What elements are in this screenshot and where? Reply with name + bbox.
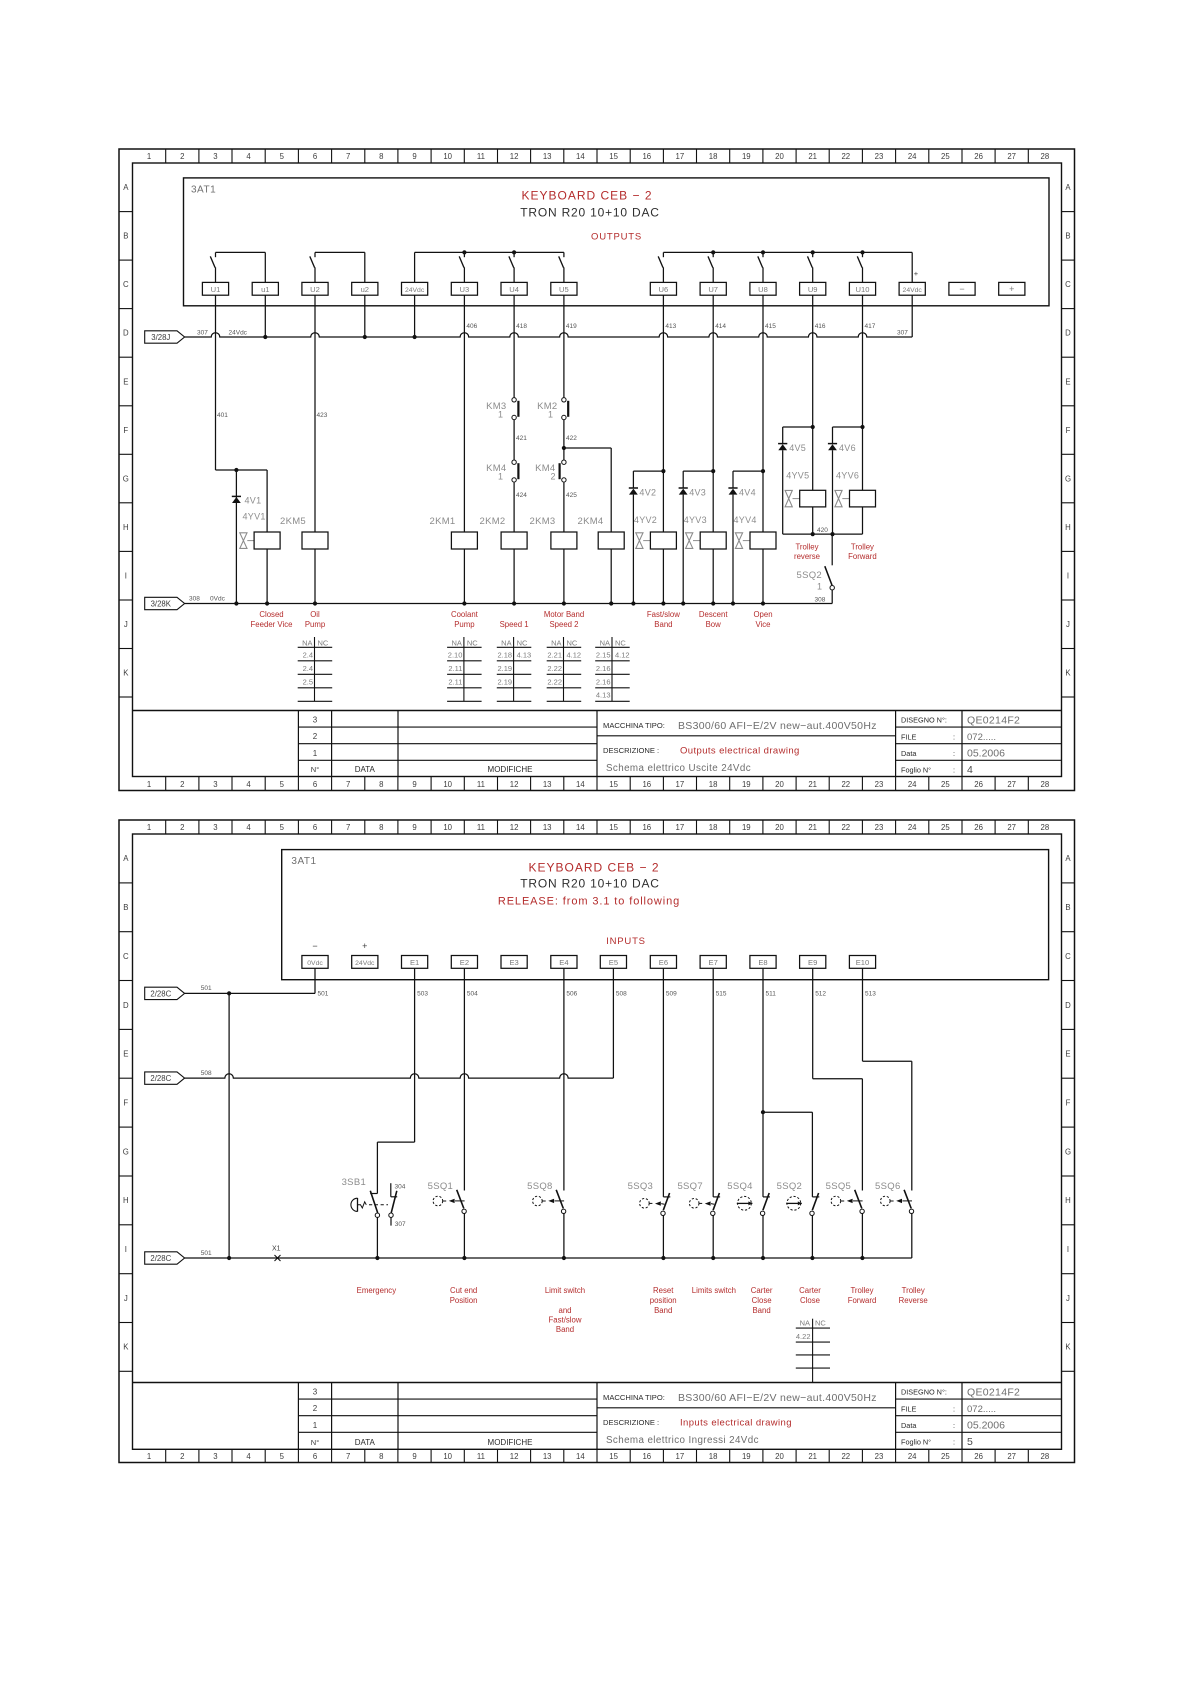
svg-text:H: H bbox=[123, 1196, 129, 1205]
svg-text:2: 2 bbox=[180, 823, 184, 832]
svg-text:4V3: 4V3 bbox=[689, 488, 706, 498]
svg-text:U4: U4 bbox=[509, 285, 519, 294]
svg-text:11: 11 bbox=[477, 823, 485, 832]
svg-text:4: 4 bbox=[967, 764, 973, 776]
svg-text:19: 19 bbox=[742, 823, 751, 832]
svg-text:4V6: 4V6 bbox=[839, 443, 856, 453]
svg-text:2.11: 2.11 bbox=[448, 664, 462, 673]
svg-text:24: 24 bbox=[908, 780, 917, 789]
svg-text:16: 16 bbox=[642, 152, 651, 161]
svg-text:K: K bbox=[1065, 669, 1071, 678]
svg-text:4V1: 4V1 bbox=[245, 496, 262, 506]
svg-text::: : bbox=[953, 1438, 955, 1447]
svg-text:DATA: DATA bbox=[355, 765, 376, 774]
svg-text:J: J bbox=[124, 620, 128, 629]
svg-text:NA: NA bbox=[451, 638, 461, 647]
svg-text:18: 18 bbox=[709, 152, 718, 161]
svg-text:2.4: 2.4 bbox=[303, 651, 313, 660]
svg-text:Outputs electrical drawing: Outputs electrical drawing bbox=[680, 746, 800, 757]
svg-text:4YV5: 4YV5 bbox=[786, 471, 809, 481]
svg-text:E5: E5 bbox=[609, 958, 618, 967]
svg-text:28: 28 bbox=[1041, 780, 1050, 789]
svg-text:Carter: Carter bbox=[799, 1286, 821, 1295]
svg-text:308: 308 bbox=[189, 596, 200, 603]
svg-text:Carter: Carter bbox=[751, 1286, 773, 1295]
svg-text:KEYBOARD CEB − 2: KEYBOARD CEB − 2 bbox=[521, 189, 652, 203]
solenoid coil 4YV3 bbox=[684, 515, 727, 549]
svg-text:501: 501 bbox=[318, 991, 329, 998]
source flag 2/28C bottom wire 501 bbox=[145, 1252, 185, 1264]
svg-text:Emergency: Emergency bbox=[357, 1286, 397, 1295]
svg-text:2KM5: 2KM5 bbox=[280, 516, 306, 527]
terminal U2 bbox=[302, 282, 328, 295]
svg-text:3: 3 bbox=[313, 716, 318, 725]
svg-text:2/28C: 2/28C bbox=[150, 1254, 171, 1263]
bus 501 top bbox=[185, 968, 315, 995]
internal contact and wire for output U2 bbox=[310, 252, 365, 282]
svg-text:2: 2 bbox=[180, 1452, 184, 1461]
svg-text:K: K bbox=[123, 1343, 129, 1352]
terminal marker X1 bbox=[272, 1246, 281, 1262]
svg-text:E10: E10 bbox=[856, 958, 870, 967]
svg-text:U9: U9 bbox=[808, 285, 818, 294]
source flag 3/28K bbox=[145, 597, 185, 609]
svg-text:13: 13 bbox=[543, 1452, 552, 1461]
svg-text:Band: Band bbox=[556, 1325, 574, 1334]
svg-text:9: 9 bbox=[412, 152, 416, 161]
svg-text:NC: NC bbox=[615, 638, 626, 647]
svg-text:FILE: FILE bbox=[901, 1404, 917, 1413]
svg-text:423: 423 bbox=[317, 412, 328, 419]
svg-text:2.18: 2.18 bbox=[497, 651, 512, 660]
terminal U5 bbox=[551, 282, 577, 295]
diode 4V2 bbox=[629, 488, 657, 498]
wire E5 to bus 508 bbox=[612, 968, 614, 1078]
svg-text:2.19: 2.19 bbox=[497, 664, 512, 673]
svg-text:Data: Data bbox=[901, 749, 917, 758]
svg-text:15: 15 bbox=[609, 152, 618, 161]
svg-text:5: 5 bbox=[280, 780, 285, 789]
diode 4V4 bbox=[728, 488, 756, 498]
svg-text:+: + bbox=[362, 941, 367, 951]
svg-text:27: 27 bbox=[1007, 780, 1016, 789]
svg-text:19: 19 bbox=[742, 780, 751, 789]
svg-text:C: C bbox=[123, 280, 129, 289]
svg-text:Reset: Reset bbox=[653, 1286, 674, 1295]
svg-text:8: 8 bbox=[379, 152, 383, 161]
svg-text:27: 27 bbox=[1007, 152, 1016, 161]
svg-text:21: 21 bbox=[808, 152, 817, 161]
svg-text::: : bbox=[953, 766, 955, 775]
svg-text:E1: E1 bbox=[410, 958, 419, 967]
svg-text:3: 3 bbox=[213, 823, 217, 832]
function labels red page1 bbox=[251, 543, 877, 629]
svg-text:2.22: 2.22 bbox=[547, 664, 562, 673]
svg-text:U5: U5 bbox=[559, 285, 569, 294]
wire U8 to 4YV4 group bbox=[733, 295, 765, 603]
relay coil 2KM5 bbox=[280, 516, 328, 549]
svg-text:U7: U7 bbox=[708, 285, 718, 294]
svg-text:15: 15 bbox=[609, 1452, 618, 1461]
relay coil 2KM1 bbox=[430, 516, 478, 549]
wire E6 to 5SQ3 bbox=[662, 968, 664, 1197]
svg-text:3: 3 bbox=[213, 780, 217, 789]
svg-text:Forward: Forward bbox=[848, 552, 877, 561]
internal contacts for outputs U6-U10 bbox=[658, 250, 919, 282]
svg-text:21: 21 bbox=[808, 780, 817, 789]
svg-text:15: 15 bbox=[609, 823, 618, 832]
svg-text:18: 18 bbox=[709, 823, 718, 832]
title block bbox=[133, 1383, 1062, 1450]
svg-text:U8: U8 bbox=[758, 285, 768, 294]
svg-text:7: 7 bbox=[346, 823, 350, 832]
svg-text:417: 417 bbox=[865, 323, 876, 330]
svg-text:419: 419 bbox=[566, 323, 577, 330]
svg-text:414: 414 bbox=[715, 323, 726, 330]
svg-text:14: 14 bbox=[576, 823, 585, 832]
diode 4V6 bbox=[828, 443, 856, 453]
svg-text:Fast/slow: Fast/slow bbox=[549, 1316, 582, 1325]
svg-text:Close: Close bbox=[800, 1296, 820, 1305]
svg-text:I: I bbox=[125, 1245, 127, 1254]
contact KM3/1 bbox=[486, 398, 518, 420]
limit switch 5SQ4 bbox=[727, 1181, 770, 1258]
svg-text:E: E bbox=[1065, 1050, 1070, 1059]
svg-text:4: 4 bbox=[246, 823, 251, 832]
relay coil 2KM2 bbox=[480, 516, 528, 549]
bus 508 bbox=[185, 1070, 614, 1078]
svg-text:25: 25 bbox=[941, 823, 950, 832]
svg-text:Bow: Bow bbox=[706, 620, 722, 629]
svg-text:2/28C: 2/28C bbox=[150, 989, 171, 998]
svg-text:1: 1 bbox=[147, 823, 151, 832]
svg-text:422: 422 bbox=[566, 435, 577, 442]
svg-text:OUTPUTS: OUTPUTS bbox=[591, 232, 642, 243]
terminal E2 bbox=[451, 956, 477, 969]
svg-text:N°: N° bbox=[311, 765, 319, 774]
svg-text:2.15: 2.15 bbox=[596, 651, 611, 660]
svg-text:24: 24 bbox=[908, 152, 917, 161]
svg-text:Data: Data bbox=[901, 1421, 917, 1430]
svg-text:5: 5 bbox=[280, 152, 285, 161]
svg-text:508: 508 bbox=[201, 1070, 212, 1077]
svg-text:E: E bbox=[123, 1050, 128, 1059]
svg-text:24Vdc: 24Vdc bbox=[355, 960, 375, 967]
wire U2 to 2KM5 bbox=[315, 295, 328, 603]
svg-text:3/28K: 3/28K bbox=[151, 600, 172, 609]
svg-text:E: E bbox=[123, 377, 128, 386]
svg-text:506: 506 bbox=[566, 991, 577, 998]
svg-text:9: 9 bbox=[412, 1452, 416, 1461]
limit switch 5SQ5 bbox=[826, 1181, 865, 1258]
solenoid coil 4YV6 bbox=[835, 471, 876, 507]
terminal E8 bbox=[750, 956, 776, 969]
svg-text:12: 12 bbox=[510, 823, 519, 832]
svg-text:Band: Band bbox=[654, 620, 672, 629]
svg-text:Closed: Closed bbox=[259, 610, 283, 619]
terminal 24Vdc right bbox=[899, 282, 925, 295]
svg-text:E4: E4 bbox=[559, 958, 568, 967]
svg-text:4.22: 4.22 bbox=[796, 1332, 811, 1341]
svg-text:4: 4 bbox=[246, 152, 251, 161]
solenoid coil 4YV4 bbox=[734, 515, 777, 549]
svg-text:23: 23 bbox=[875, 780, 884, 789]
contact KM4/1 bbox=[486, 460, 518, 482]
svg-text:24: 24 bbox=[908, 823, 917, 832]
svg-text:2.22: 2.22 bbox=[547, 677, 562, 686]
terminal E10 bbox=[849, 956, 875, 969]
svg-text:NC: NC bbox=[567, 638, 578, 647]
svg-text:Limits switch: Limits switch bbox=[692, 1286, 736, 1295]
svg-text:NC: NC bbox=[467, 638, 478, 647]
diode 4V3 bbox=[679, 488, 707, 498]
svg-text:308: 308 bbox=[815, 597, 826, 604]
svg-text:415: 415 bbox=[765, 323, 776, 330]
svg-text:3: 3 bbox=[313, 1388, 318, 1397]
svg-text:3: 3 bbox=[213, 1452, 217, 1461]
svg-text:4YV1: 4YV1 bbox=[243, 512, 266, 522]
svg-text:MODIFICHE: MODIFICHE bbox=[488, 765, 533, 774]
svg-text:15: 15 bbox=[609, 780, 618, 789]
diode 4V1 bbox=[232, 496, 262, 506]
terminal E3 bbox=[501, 956, 527, 969]
svg-text:28: 28 bbox=[1041, 152, 1050, 161]
svg-text:17: 17 bbox=[676, 1452, 685, 1461]
bus 308 0Vdc bbox=[185, 596, 833, 606]
svg-text:501: 501 bbox=[201, 1250, 212, 1257]
svg-text:H: H bbox=[1065, 1196, 1071, 1205]
terminal E7 bbox=[700, 956, 726, 969]
terminal wire numbers page2 bbox=[318, 991, 877, 998]
solenoid coil 4YV2 bbox=[634, 515, 677, 549]
svg-text:E9: E9 bbox=[808, 958, 817, 967]
svg-text:and: and bbox=[558, 1306, 571, 1315]
svg-text:−: − bbox=[312, 941, 317, 951]
terminal u1 bbox=[252, 282, 278, 295]
svg-text:3AT1: 3AT1 bbox=[191, 185, 216, 196]
diode 4V5 bbox=[778, 443, 806, 453]
svg-text:TRON R20 10+10 DAC: TRON R20 10+10 DAC bbox=[520, 206, 659, 220]
emergency pushbutton 3SB1 bbox=[342, 1177, 388, 1258]
svg-text:5SQ6: 5SQ6 bbox=[875, 1181, 901, 1192]
svg-text:22: 22 bbox=[841, 1452, 850, 1461]
svg-text:U2: U2 bbox=[310, 285, 320, 294]
svg-text:QE0214F2: QE0214F2 bbox=[967, 1387, 1020, 1399]
wire 501 vertical riser bbox=[228, 993, 230, 1258]
svg-text:I: I bbox=[1067, 1245, 1069, 1254]
svg-text:Motor Band: Motor Band bbox=[544, 610, 584, 619]
keyboard unit box 3AT1 page2 bbox=[282, 850, 1049, 980]
cross reference table page2 bbox=[796, 1319, 830, 1383]
svg-text:2KM1: 2KM1 bbox=[430, 516, 456, 527]
svg-text:23: 23 bbox=[875, 152, 884, 161]
svg-text:U6: U6 bbox=[659, 285, 669, 294]
svg-text:Position: Position bbox=[450, 1296, 478, 1305]
svg-text:504: 504 bbox=[467, 991, 478, 998]
terminal U7 bbox=[700, 282, 726, 295]
svg-text:J: J bbox=[1066, 1294, 1070, 1303]
svg-text:503: 503 bbox=[417, 991, 428, 998]
limit switch 5SQ2 bbox=[797, 534, 835, 603]
svg-text:6: 6 bbox=[313, 780, 317, 789]
svg-text:13: 13 bbox=[543, 152, 552, 161]
source flag 3/28J bbox=[145, 331, 185, 343]
svg-text:12: 12 bbox=[510, 152, 519, 161]
svg-text:position: position bbox=[650, 1296, 677, 1305]
svg-text:KM3: KM3 bbox=[486, 401, 506, 412]
terminal 24Vdc left bbox=[402, 282, 428, 295]
svg-text:5SQ1: 5SQ1 bbox=[428, 1181, 454, 1192]
svg-text:BS300/60 AFI−E/2V new−aut.40: BS300/60 AFI−E/2V new−aut.400V50Hz bbox=[678, 1392, 877, 1404]
terminal E6 bbox=[650, 956, 676, 969]
svg-text:NC: NC bbox=[517, 638, 528, 647]
limit switch 5SQ3 bbox=[628, 1181, 671, 1258]
svg-text:RELEASE: from 3.1 to follo: RELEASE: from 3.1 to following bbox=[498, 896, 680, 908]
svg-text:Pump: Pump bbox=[305, 620, 326, 629]
svg-text:4.13: 4.13 bbox=[596, 691, 611, 700]
terminal U10 bbox=[849, 282, 875, 295]
svg-text:I: I bbox=[125, 572, 127, 581]
svg-text:401: 401 bbox=[217, 412, 228, 419]
svg-text:Feeder Vice: Feeder Vice bbox=[251, 620, 293, 629]
svg-text:J: J bbox=[124, 1294, 128, 1303]
svg-text:418: 418 bbox=[516, 323, 527, 330]
svg-text::: : bbox=[953, 749, 955, 758]
relay coil 2KM4 bbox=[578, 516, 625, 549]
terminal U3 bbox=[451, 282, 477, 295]
svg-text:307: 307 bbox=[197, 330, 208, 337]
contact KM2/1 bbox=[537, 398, 568, 420]
svg-text:MODIFICHE: MODIFICHE bbox=[488, 1438, 533, 1447]
wire E9 to 5SQ5 bbox=[813, 968, 863, 1190]
svg-text:0Vdc: 0Vdc bbox=[210, 596, 226, 603]
svg-text:F: F bbox=[1066, 426, 1071, 435]
svg-text:406: 406 bbox=[466, 323, 477, 330]
svg-text:24: 24 bbox=[908, 1452, 917, 1461]
wire E4 to 5SQ8 bbox=[563, 968, 565, 1190]
wire to 4YV5 trolley group bbox=[783, 295, 815, 534]
svg-text:19: 19 bbox=[742, 1452, 751, 1461]
svg-text:2: 2 bbox=[313, 1404, 318, 1413]
terminal plus bbox=[999, 282, 1025, 295]
svg-text:3: 3 bbox=[213, 152, 217, 161]
svg-text:1: 1 bbox=[147, 152, 151, 161]
svg-text:11: 11 bbox=[477, 780, 485, 789]
svg-text:6: 6 bbox=[313, 823, 317, 832]
solenoid coil 4YV1 bbox=[240, 512, 280, 550]
svg-text:5: 5 bbox=[967, 1436, 973, 1448]
svg-text:F: F bbox=[1066, 1099, 1071, 1108]
svg-text:4YV2: 4YV2 bbox=[634, 515, 657, 525]
solenoid coil 4YV5 bbox=[785, 471, 826, 507]
svg-text:9: 9 bbox=[412, 823, 416, 832]
svg-text:424: 424 bbox=[516, 492, 527, 499]
svg-text:B: B bbox=[1065, 903, 1070, 912]
svg-text:1: 1 bbox=[817, 582, 822, 592]
svg-text:304: 304 bbox=[395, 1184, 406, 1191]
auxiliary contact 3SB1 wires 304 307 bbox=[389, 1183, 406, 1228]
svg-text:24Vdc: 24Vdc bbox=[903, 287, 923, 294]
svg-text:413: 413 bbox=[665, 323, 676, 330]
svg-text:DISEGNO N°:: DISEGNO N°: bbox=[901, 1388, 947, 1397]
svg-text:3AT1: 3AT1 bbox=[291, 856, 316, 867]
svg-text:14: 14 bbox=[576, 780, 585, 789]
wire labels above bus bbox=[466, 323, 875, 330]
bus 501 bottom bbox=[185, 1250, 912, 1260]
svg-text:513: 513 bbox=[865, 991, 876, 998]
wire U7 to 4YV3 group bbox=[683, 295, 715, 603]
contact KM4/2 bbox=[535, 460, 566, 482]
svg-text:4: 4 bbox=[246, 780, 251, 789]
svg-text:10: 10 bbox=[443, 780, 452, 789]
svg-text:F: F bbox=[123, 1099, 128, 1108]
svg-text:BS300/60 AFI−E/2V new−aut.40: BS300/60 AFI−E/2V new−aut.400V50Hz bbox=[678, 720, 877, 732]
wire E7 to 5SQ7 bbox=[712, 968, 714, 1197]
svg-text:22: 22 bbox=[841, 152, 850, 161]
terminal u2 bbox=[352, 282, 378, 295]
svg-text:6: 6 bbox=[313, 1452, 317, 1461]
terminal E5 bbox=[600, 956, 626, 969]
svg-text:Open: Open bbox=[753, 610, 772, 619]
svg-text:05.2006: 05.2006 bbox=[967, 748, 1005, 760]
svg-text:NA: NA bbox=[302, 638, 312, 647]
svg-text:13: 13 bbox=[543, 780, 552, 789]
function labels red page2 bbox=[357, 1286, 928, 1334]
svg-text:G: G bbox=[123, 474, 129, 483]
svg-text:1: 1 bbox=[147, 1452, 151, 1461]
svg-text:2.5: 2.5 bbox=[303, 677, 313, 686]
svg-text:24Vdc: 24Vdc bbox=[229, 330, 248, 337]
svg-text:25: 25 bbox=[941, 1452, 950, 1461]
svg-text:5SQ4: 5SQ4 bbox=[727, 1181, 753, 1192]
svg-text:Coolant: Coolant bbox=[451, 610, 479, 619]
svg-text:515: 515 bbox=[716, 991, 727, 998]
svg-text:J: J bbox=[1066, 620, 1070, 629]
svg-text:26: 26 bbox=[974, 152, 983, 161]
svg-text:1: 1 bbox=[498, 472, 503, 482]
svg-text:u2: u2 bbox=[361, 285, 369, 294]
svg-text:reverse: reverse bbox=[794, 552, 820, 561]
svg-text:C: C bbox=[1065, 952, 1071, 961]
wire U5 through contacts to 2KM3 bbox=[562, 295, 577, 603]
svg-text:U1: U1 bbox=[211, 285, 221, 294]
svg-text:9: 9 bbox=[412, 780, 416, 789]
svg-text:KEYBOARD CEB − 2: KEYBOARD CEB − 2 bbox=[528, 861, 659, 875]
svg-text:7: 7 bbox=[346, 780, 350, 789]
svg-text:G: G bbox=[123, 1147, 129, 1156]
svg-text:21: 21 bbox=[808, 823, 817, 832]
svg-text:27: 27 bbox=[1007, 823, 1016, 832]
svg-text:C: C bbox=[1065, 280, 1071, 289]
svg-text:26: 26 bbox=[974, 1452, 983, 1461]
svg-text:2/28C: 2/28C bbox=[150, 1074, 171, 1083]
svg-text:501: 501 bbox=[201, 985, 212, 992]
svg-text:4YV4: 4YV4 bbox=[734, 515, 757, 525]
wire terminal drops to bus bbox=[265, 295, 912, 337]
svg-text:NA: NA bbox=[600, 638, 610, 647]
svg-text:I: I bbox=[1067, 572, 1069, 581]
svg-text:Band: Band bbox=[752, 1306, 770, 1315]
terminal U4 bbox=[501, 282, 527, 295]
svg-text:+: + bbox=[914, 269, 919, 278]
svg-text:F: F bbox=[123, 426, 128, 435]
svg-text:Forward: Forward bbox=[848, 1296, 877, 1305]
svg-text:20: 20 bbox=[775, 152, 784, 161]
svg-text:E2: E2 bbox=[460, 958, 469, 967]
svg-text:5SQ8: 5SQ8 bbox=[527, 1181, 553, 1192]
svg-text:E3: E3 bbox=[509, 958, 518, 967]
limit switch 5SQ6 bbox=[875, 1181, 914, 1258]
